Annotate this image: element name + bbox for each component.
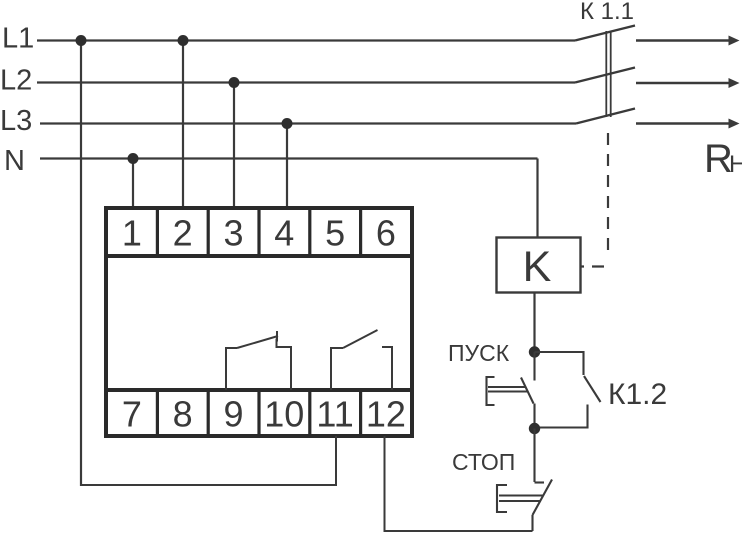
svg-text:5: 5 xyxy=(325,213,345,254)
wire N to terminal 1 xyxy=(132,159,134,209)
junction dot L1-left xyxy=(76,35,87,46)
svg-text:7: 7 xyxy=(122,394,142,435)
wire N horizontal xyxy=(40,157,538,159)
K1.1 linkage bar left xyxy=(605,31,607,117)
relay contact 11-12 xyxy=(331,330,392,390)
svg-text:1: 1 xyxy=(122,213,142,254)
wire L1 horizontal xyxy=(37,39,575,41)
K1.1 blade pole L1 xyxy=(575,26,635,41)
PUSK bottom lead xyxy=(533,404,535,429)
K1.1 blade pole L2 xyxy=(575,68,635,83)
STOP fixed contact nub xyxy=(535,481,545,483)
svg-text:L1: L1 xyxy=(2,23,34,55)
STOP actuator link lower xyxy=(499,500,541,502)
K1.2 top lead xyxy=(535,352,584,375)
contact K1.1 xyxy=(575,26,635,267)
terminal separators top row xyxy=(157,208,360,256)
wire L2 horizontal xyxy=(37,81,575,83)
K1.1 dashed link horizontal to coil xyxy=(581,265,608,267)
STOP plunger bracket xyxy=(497,485,507,512)
svg-text:K: K xyxy=(523,243,552,291)
wire L3 to terminal 4 xyxy=(286,124,288,209)
pushbutton PUSK (NO) xyxy=(487,352,535,429)
PUSK plunger bracket xyxy=(487,377,495,405)
K1.1 linkage bar right xyxy=(610,31,612,117)
svg-text:Н: Н xyxy=(729,151,742,178)
svg-text:2: 2 xyxy=(173,213,193,254)
wire coil K to PUSK junction xyxy=(533,293,535,353)
K1.1 blade pole L3 xyxy=(576,109,635,124)
svg-text:10: 10 xyxy=(264,394,304,435)
K1.1 dashed link vertical xyxy=(607,133,609,259)
junction dot STOP xyxy=(529,423,540,434)
PUSK blade xyxy=(521,378,534,404)
svg-text:4: 4 xyxy=(274,213,294,254)
contact K1.2 xyxy=(535,352,601,428)
load label Rn xyxy=(704,137,742,181)
relay contact 9-10 xyxy=(226,331,291,390)
arrow to load phase 3 xyxy=(636,119,740,129)
svg-text:8: 8 xyxy=(173,394,193,435)
wire N to coil K vertical xyxy=(536,159,538,239)
arrow to load phase 1 xyxy=(636,36,740,46)
svg-text:12: 12 xyxy=(366,394,406,435)
svg-text:3: 3 xyxy=(223,213,243,254)
STOP top lead xyxy=(533,429,535,483)
junction dot L1-terminal2 xyxy=(178,35,189,46)
wire terminal 11 to bottom-left xyxy=(81,436,336,485)
pushbutton STOP (NC) xyxy=(497,429,552,532)
junction dot PUSK xyxy=(529,346,540,357)
K1.2 bottom lead xyxy=(535,405,588,428)
wire L3 horizontal xyxy=(40,122,576,124)
svg-text:L2: L2 xyxy=(0,65,32,97)
relay device box outline xyxy=(106,208,412,436)
svg-text:11: 11 xyxy=(316,394,353,435)
svg-text:К 1.1: К 1.1 xyxy=(580,0,634,25)
K1.2 blade xyxy=(584,376,601,402)
svg-text:N: N xyxy=(4,145,25,177)
junction dot L3-terminal4 xyxy=(282,118,293,129)
junction dot N-terminal1 xyxy=(128,153,139,164)
STOP bottom lead xyxy=(531,515,533,531)
wire L2 to terminal 3 xyxy=(233,83,235,209)
PUSK actuator link upper xyxy=(488,386,526,388)
svg-text:9: 9 xyxy=(223,394,243,435)
wire L1 to bottom-left branch xyxy=(80,41,82,487)
terminal separators bottom row xyxy=(157,390,360,436)
PUSK top lead xyxy=(533,352,535,381)
svg-text:ПУСК: ПУСК xyxy=(448,340,510,366)
PUSK actuator link lower xyxy=(488,390,527,392)
contactor coil K box xyxy=(497,238,581,293)
STOP blade xyxy=(533,480,553,516)
wire terminal 12 to STOP button xyxy=(385,436,533,531)
wire L1 to terminal 2 xyxy=(182,41,184,209)
junction dot L2-terminal3 xyxy=(229,77,240,88)
svg-text:К1.2: К1.2 xyxy=(608,378,667,411)
arrow to load phase 2 xyxy=(636,78,740,88)
STOP actuator link upper xyxy=(499,494,543,496)
svg-text:6: 6 xyxy=(376,213,396,254)
svg-text:СТОП: СТОП xyxy=(452,449,515,475)
svg-text:L3: L3 xyxy=(0,105,32,137)
